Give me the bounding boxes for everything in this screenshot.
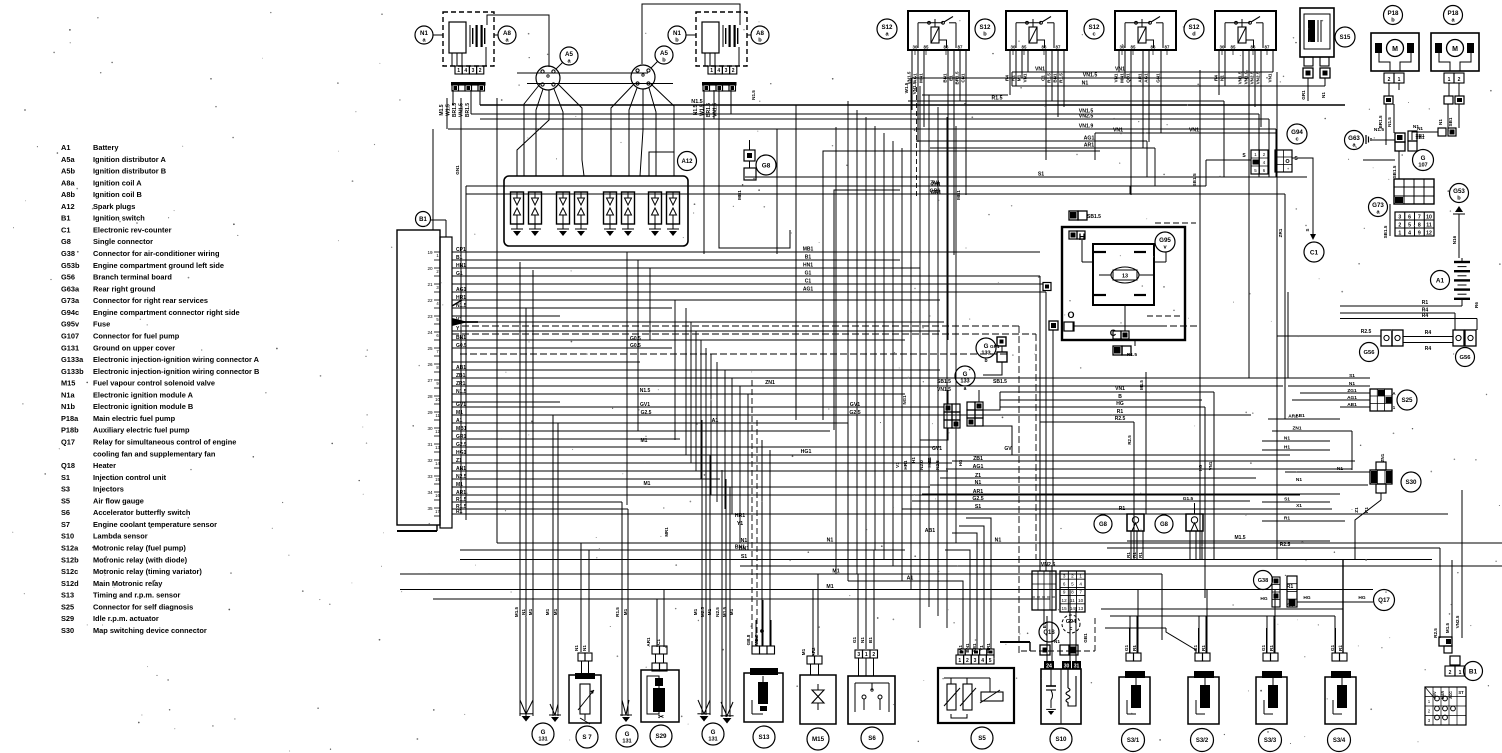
svg-text:1: 1 (1398, 230, 1401, 236)
wire M1 from S1 pin y=487 (452, 486, 930, 488)
connector strip under group A (451, 82, 486, 86)
svg-text:2: 2 (479, 68, 482, 74)
svg-text:a: a (964, 386, 967, 392)
svg-text:10: 10 (1078, 598, 1084, 603)
svg-text:R6: R6 (1474, 302, 1479, 308)
wire HN1 from S1 pin y=268 (452, 267, 920, 269)
svg-text:3: 3 (472, 68, 475, 74)
svg-text:133: 133 (981, 350, 990, 356)
spark plug 2 (529, 192, 542, 224)
svg-text:G: G (1421, 155, 1426, 162)
svg-text:S15: S15 (1340, 35, 1351, 41)
svg-text:R1: R1 (1287, 584, 1294, 590)
wire ZB1 from S1 pin y=378 (452, 377, 1368, 379)
S7 connector (578, 653, 585, 661)
wire vertical x=520 (519, 262, 521, 716)
svg-text:21: 21 (427, 282, 433, 287)
ignition distributor A5a (536, 66, 560, 90)
svg-text:N1: N1 (860, 637, 865, 643)
svg-text:S3/3: S3/3 (1264, 738, 1277, 744)
wire vertical relay-drop x=929 (928, 95, 930, 607)
svg-text:b: b (662, 57, 666, 63)
svg-text:8: 8 (1071, 590, 1074, 595)
svg-text:VN1: VN1 (1115, 67, 1125, 73)
relay S12b switch contact (1016, 22, 1041, 24)
svg-text:3: 3 (1398, 214, 1401, 220)
svg-text:SB1.5: SB1.5 (1392, 165, 1397, 178)
svg-text:VN2.5: VN2.5 (1256, 71, 1261, 84)
svg-text:R1: R1 (1364, 507, 1369, 513)
svg-text:G8: G8 (61, 237, 71, 246)
svg-text:14: 14 (1070, 606, 1076, 611)
svg-text:Fuse: Fuse (93, 320, 110, 329)
svg-text:N1: N1 (1438, 119, 1443, 125)
wire Z1 from S1 pin y=463 (452, 462, 952, 464)
fuel pump P18b box (1371, 33, 1419, 71)
svg-text:G56: G56 (1460, 355, 1472, 361)
svg-text:Electronic ignition module B: Electronic ignition module B (93, 402, 193, 411)
svg-text:Single connector: Single connector (93, 237, 153, 246)
svg-text:S1: S1 (61, 473, 70, 482)
central box connector H top (1069, 231, 1077, 239)
svg-text:S3/2: S3/2 (1196, 738, 1209, 744)
svg-text:M: M (1392, 46, 1398, 53)
svg-text:R2.5: R2.5 (1115, 416, 1126, 422)
svg-text:VN1: VN1 (1115, 386, 1125, 392)
wire MB1 from S1 pin y=431 (452, 430, 830, 432)
S10 lambda cell symbol (1046, 685, 1056, 687)
svg-text:R2.5: R2.5 (1280, 542, 1291, 548)
svg-text:2: 2 (1071, 573, 1074, 578)
wire A1 drop from bus (847, 423, 849, 581)
svg-text:2: 2 (872, 652, 875, 658)
svg-text:S25: S25 (1401, 397, 1413, 404)
svg-text:G73a: G73a (61, 296, 80, 305)
spark plug 1 (511, 192, 524, 224)
battery wires R1 R4 R4 (1340, 305, 1462, 307)
wire AR1 mid-right y=494 (922, 493, 1340, 495)
svg-text:Electronic injection-ignition: Electronic injection-ignition wiring con… (93, 355, 260, 364)
central box connector below (1113, 346, 1122, 355)
fuel pump P18a label circle (1444, 6, 1463, 25)
wire N1 into S7 (580, 543, 582, 653)
svg-text:86: 86 (944, 45, 949, 50)
injector S3/2 label circle (1191, 729, 1214, 752)
svg-text:Auxiliary electric fuel pump: Auxiliary electric fuel pump (93, 426, 190, 435)
wire VN2.5 from relay (1254, 50, 1256, 107)
dashed vertical near S13 no2 (756, 420, 758, 646)
svg-text:R1: R1 (1269, 645, 1274, 651)
svg-text:ZN1: ZN1 (1292, 426, 1301, 432)
distributor A5a label circle (560, 47, 578, 65)
svg-text:P18b: P18b (61, 426, 79, 435)
svg-text:N1: N1 (582, 645, 587, 651)
svg-text:VN1: VN1 (1208, 461, 1213, 470)
svg-text:20: 20 (427, 266, 433, 271)
wire bus G1 y=609 (1101, 608, 1343, 610)
svg-text:VN2.5: VN2.5 (1455, 615, 1460, 628)
wire vertical mid x=725 (724, 370, 726, 509)
svg-text:X1: X1 (1296, 503, 1302, 509)
spark plug 4 (575, 192, 588, 224)
svg-text:M1: M1 (707, 608, 712, 615)
S7 resistor symbol (580, 684, 590, 714)
injector S3/4 box (1325, 677, 1356, 724)
svg-text:Electronic rev-counter: Electronic rev-counter (93, 225, 172, 234)
right-bottom connector (1439, 637, 1452, 646)
svg-text:S12: S12 (881, 24, 893, 31)
P18b wires + connector (1388, 83, 1390, 96)
wire vertical x=628 (627, 509, 629, 716)
wire HG1 from S1 pin y=455 (452, 454, 1290, 456)
G133 small connector squares (997, 337, 1006, 346)
relay S12b label circle (975, 19, 995, 39)
svg-text:M1: M1 (729, 608, 734, 615)
svg-text:BR1.5: BR1.5 (706, 103, 712, 117)
idle rpm actuator S29 box (641, 670, 679, 722)
wire vertical x=433 (432, 129, 434, 230)
svg-text:87: 87 (958, 45, 963, 50)
svg-text:5: 5 (1071, 582, 1074, 587)
wire bus S1 y=177 (745, 176, 1307, 178)
svg-text:A8: A8 (503, 30, 511, 37)
svg-text:N1: N1 (1321, 92, 1326, 98)
wire drop x=1130 (1129, 616, 1131, 653)
svg-text:Ignition distributor B: Ignition distributor B (93, 167, 166, 176)
module N1b label circle (668, 26, 686, 44)
wire vertical x=813 (812, 589, 814, 655)
svg-text:2: 2 (1398, 222, 1401, 228)
svg-text:R1: R1 (1338, 645, 1343, 651)
svg-text:C1: C1 (1310, 249, 1319, 256)
Q17 relay label circle (1374, 590, 1395, 611)
injector S3/3 box (1256, 677, 1287, 724)
wire A1 from S1 pin y=423 (452, 422, 848, 424)
svg-text:HR1: HR1 (903, 460, 908, 470)
svg-text:N1: N1 (1284, 436, 1290, 442)
svg-text:G1: G1 (1261, 644, 1266, 651)
svg-text:AG1: AG1 (803, 287, 814, 293)
wire vertical x=770 (769, 450, 771, 646)
S7 label circle (576, 726, 598, 748)
svg-text:Accelerator butterfly switch: Accelerator butterfly switch (93, 508, 191, 517)
svg-text:W1.5: W1.5 (904, 82, 909, 93)
numbered grid below (1395, 212, 1434, 236)
svg-text:Q18: Q18 (61, 461, 75, 470)
svg-text:BR1.5: BR1.5 (465, 103, 471, 117)
svg-text:SB1.5: SB1.5 (937, 379, 951, 385)
S5 resistor symbols (947, 684, 956, 710)
svg-text:G0.5: G0.5 (630, 336, 641, 342)
svg-text:Ignition distributor A: Ignition distributor A (93, 155, 166, 164)
svg-text:85: 85 (1231, 45, 1236, 50)
svg-text:12: 12 (1426, 230, 1432, 236)
svg-text:N1.5: N1.5 (1374, 127, 1384, 133)
injector S3/3 label circle (1259, 729, 1282, 752)
G8 label circle (756, 155, 776, 175)
Q18 connector squares (1040, 645, 1050, 655)
svg-text:1: 1 (1459, 670, 1462, 676)
wire VN1 from relay (1272, 50, 1274, 72)
svg-text:M1: M1 (456, 482, 463, 488)
wire R4 from relay (1009, 50, 1011, 95)
S1 pin strip (440, 237, 452, 528)
relay S12c label circle (1084, 19, 1104, 39)
dash-dot vertical from bus 1 (1018, 326, 1020, 655)
svg-text:AR2: AR2 (811, 647, 816, 657)
ignition switch table (1425, 687, 1466, 725)
wire drop x=1207 (1206, 590, 1208, 653)
svg-text:3: 3 (725, 68, 728, 74)
wire vertical x=722 (721, 470, 723, 717)
G94c dash-dot enclosure bottom (1021, 650, 1095, 652)
wire R1.5 from relay (1063, 50, 1065, 107)
svg-text:107: 107 (1418, 162, 1427, 168)
svg-text:N1: N1 (1082, 81, 1089, 87)
wire from pair leftwards (1412, 132, 1438, 140)
relay S12c switch contact (1125, 22, 1150, 24)
relay S12a label circle (877, 19, 897, 39)
wire MN1 from relay (923, 50, 925, 127)
svg-text:5: 5 (989, 658, 992, 664)
svg-text:G: G (541, 729, 546, 736)
svg-text:S10: S10 (1055, 736, 1067, 743)
svg-text:AR1: AR1 (1084, 143, 1094, 149)
dash-dot wire V/Y bus 1 (462, 325, 1019, 327)
svg-text:S5: S5 (978, 735, 986, 742)
relay S12a coil (931, 27, 939, 43)
svg-text:C1: C1 (61, 225, 70, 234)
wire bus VN1.9 y=129 (448, 128, 1276, 130)
svg-text:4: 4 (981, 658, 984, 664)
svg-text:31: 31 (1074, 663, 1080, 669)
svg-text:N2.0: N2.0 (919, 460, 924, 470)
svg-text:85: 85 (1022, 45, 1027, 50)
fuse 13 symbol (1111, 267, 1139, 283)
G94c dashed circle (1062, 615, 1080, 633)
svg-text:B1: B1 (868, 637, 873, 643)
svg-text:Q17: Q17 (1378, 597, 1390, 604)
svg-text:S: S (1305, 228, 1310, 231)
svg-text:B1: B1 (805, 255, 812, 261)
svg-text:GB1: GB1 (1083, 633, 1088, 643)
svg-text:1: 1 (710, 68, 713, 74)
battery A1 symbol (1454, 261, 1470, 263)
svg-text:9: 9 (1063, 590, 1066, 595)
wire bus VN1.5 y=114 (471, 113, 1259, 115)
wire bus VN1 y=133 (1095, 132, 1276, 134)
wire vertical x=657 (656, 599, 658, 647)
single connector G8 block lower (744, 168, 756, 180)
wire vertical x=533 (532, 270, 534, 716)
svg-text:R1: R1 (1132, 645, 1137, 651)
injector S3/4 label circle (1328, 729, 1351, 752)
wire vertical mid x=701 (700, 340, 702, 479)
wire BN1 from relay (1057, 50, 1059, 117)
wire CN1 from relay (965, 50, 967, 195)
module B long drops (703, 90, 705, 254)
relay S12d switch contact (1225, 22, 1250, 24)
svg-text:M1.5: M1.5 (439, 104, 445, 115)
wire bus unnamed y=95 (922, 94, 1008, 96)
single connector G8 no3 box (1186, 514, 1203, 531)
S6 switch symbol (855, 683, 889, 712)
svg-text:11: 11 (1070, 598, 1075, 603)
G107 label circle (1413, 150, 1434, 171)
svg-text:Branch terminal board: Branch terminal board (93, 273, 172, 282)
wire G2.5 mid-right y=501 (912, 500, 1250, 502)
svg-text:G2.5: G2.5 (456, 442, 467, 448)
svg-text:Engine coolant temperature sen: Engine coolant temperature sensor (93, 520, 217, 529)
svg-text:AR1: AR1 (973, 489, 983, 495)
svg-text:7: 7 (1079, 590, 1082, 595)
dash-dot wire bus 3 (460, 353, 1010, 355)
fuel vapour valve M15 box (800, 675, 836, 724)
svg-text:86: 86 (1151, 45, 1156, 50)
spark plug 3 ground (559, 231, 567, 236)
svg-text:6: 6 (1408, 214, 1411, 220)
svg-text:MR1: MR1 (664, 527, 669, 537)
wire VN2.5 from relay (1260, 50, 1262, 127)
svg-text:2: 2 (732, 68, 735, 74)
injector S3/1 box (1119, 677, 1150, 724)
M1.5 wire lower right (1127, 540, 1330, 542)
svg-text:d: d (1192, 31, 1196, 37)
svg-text:22: 22 (427, 298, 433, 303)
wire drop x=1267 (1266, 616, 1268, 653)
svg-text:30: 30 (1011, 45, 1016, 50)
svg-text:O: O (1067, 310, 1074, 320)
wire CP1 from S1 pin y=252 (452, 251, 1040, 253)
svg-text:5: 5 (1408, 222, 1411, 228)
svg-text:Fuel vapour control solenoid v: Fuel vapour control solenoid valve (93, 379, 215, 388)
svg-text:A5a: A5a (61, 155, 75, 164)
svg-text:M1: M1 (545, 608, 550, 615)
wire R4 from relay (1218, 50, 1220, 95)
svg-text:86: 86 (1251, 45, 1256, 50)
wire vertical relay-drop x=866 (865, 117, 867, 543)
injector S3/3 connector (1263, 653, 1271, 661)
svg-text:SB1: SB1 (1415, 133, 1425, 139)
svg-text:Y1: Y1 (979, 645, 984, 651)
svg-text:G38: G38 (61, 249, 75, 258)
svg-text:R4: R4 (1422, 313, 1429, 319)
svg-text:c: c (1295, 136, 1298, 142)
S6 connector (855, 650, 863, 658)
wire T-drop from N1.5 bus (795, 105, 797, 420)
wire R1.5 from relay (1051, 50, 1053, 101)
wire vertical mid x=717 (716, 362, 718, 502)
svg-text:R1: R1 (1117, 409, 1124, 415)
wire N1 mid-right y=485 (930, 484, 1368, 486)
svg-text:Q18: Q18 (1043, 630, 1055, 636)
wire distributor A5a pins to spark plugs (536, 89, 543, 176)
dashed vertical near S13 no1 (751, 380, 753, 646)
svg-text:29: 29 (427, 410, 433, 415)
wire AG1 from relay (917, 50, 919, 142)
wires from connector A down to buses (479, 90, 481, 105)
svg-text:Map switching device connector: Map switching device connector (93, 626, 207, 635)
svg-text:G2.5: G2.5 (972, 496, 983, 502)
R2.5 wire lower right (1107, 547, 1440, 549)
svg-text:S10: S10 (61, 532, 74, 541)
spark plugs A12 label circle (678, 152, 697, 171)
S29 label circle (650, 725, 672, 747)
svg-text:B1: B1 (1469, 668, 1478, 675)
wire drop x=1052 (1051, 566, 1053, 661)
dash-dot wire V/Y bus 2 (452, 333, 1036, 335)
svg-text:B1: B1 (419, 217, 427, 223)
wire G2.5 from S1 pin y=447 (452, 446, 940, 448)
single connector G8 no3 label circle (1155, 515, 1173, 533)
svg-text:AR1: AR1 (646, 637, 651, 647)
svg-text:7: 7 (1418, 214, 1421, 220)
svg-text:2: 2 (1458, 77, 1461, 83)
svg-text:G95: G95 (1159, 237, 1171, 244)
M15 valve symbol (812, 690, 824, 703)
svg-text:HG: HG (958, 459, 963, 466)
wire drop x=1275 (1274, 590, 1276, 653)
svg-text:N1b: N1b (61, 402, 75, 411)
svg-text:Injection control unit: Injection control unit (93, 473, 167, 482)
svg-text:15: 15 (435, 477, 440, 482)
wire VN1 drop right of S5 (1161, 574, 1163, 640)
svg-text:b: b (984, 358, 987, 364)
wire into grid no1 (1206, 159, 1251, 161)
svg-text:BR1.5: BR1.5 (1378, 115, 1383, 128)
wire R1.5 from S1 pin y=502 (452, 501, 622, 503)
wire vertical mid x=686 (685, 308, 687, 455)
A1 label circle (1431, 271, 1450, 290)
wire vertical x=726 (725, 479, 727, 717)
svg-text:131: 131 (538, 736, 547, 742)
svg-text:3: 3 (1063, 573, 1066, 578)
svg-text:2: 2 (966, 658, 969, 664)
svg-text:B1: B1 (927, 457, 932, 463)
svg-text:A5: A5 (660, 50, 668, 57)
svg-text:R1.5: R1.5 (1127, 352, 1137, 358)
svg-text:Ignition switch: Ignition switch (93, 214, 145, 223)
relay S12a switch contact (918, 22, 943, 24)
wire vertical relay-drop x=857 (856, 110, 858, 574)
svg-text:31: 31 (427, 442, 433, 447)
wires into striped grid (1039, 276, 1041, 571)
wire bus M1 y=574 (400, 573, 1162, 575)
svg-text:M: M (1452, 46, 1458, 53)
wire G1 from S1 pin y=276 (452, 275, 1040, 277)
svg-text:HG: HG (1116, 401, 1124, 407)
spark plugs assembly A12 box (504, 176, 688, 246)
wire bus VN1 y=72 (1012, 71, 1273, 73)
wire vertical relay-drop x=884 (883, 133, 885, 559)
wire AN1 from S1 pin y=471 (452, 470, 948, 472)
svg-text:A8a: A8a (61, 178, 75, 187)
svg-text:R4: R4 (1425, 346, 1432, 352)
svg-text:ZB1: ZB1 (973, 456, 983, 462)
svg-text:G1: G1 (1193, 644, 1198, 651)
S13 sensor symbol (758, 682, 768, 704)
dashed wire below relay S12a (916, 87, 918, 196)
svg-text:A1: A1 (907, 576, 914, 582)
svg-text:1: 1 (865, 652, 868, 658)
svg-text:AB1: AB1 (1347, 402, 1357, 408)
connector grid pair near G94c no2 (1275, 150, 1292, 172)
svg-text:87: 87 (1265, 45, 1270, 50)
svg-text:B1: B1 (61, 214, 70, 223)
svg-text:6: 6 (1063, 582, 1066, 587)
svg-text:G: G (625, 731, 630, 738)
svg-text:M1.5: M1.5 (1139, 380, 1144, 390)
